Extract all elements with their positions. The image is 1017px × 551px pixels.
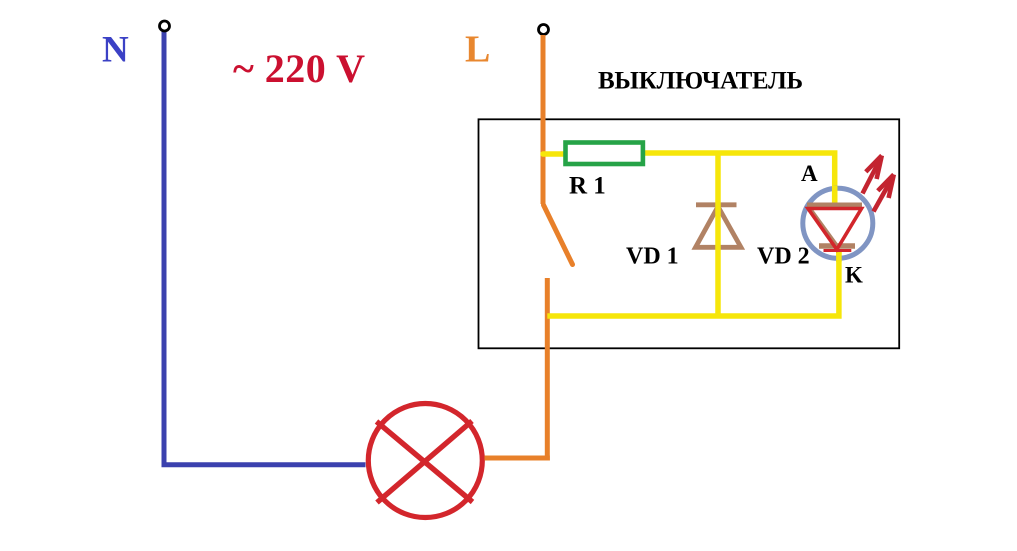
diode VD1 cathode bar bbox=[696, 202, 737, 207]
LED VD2 tan anode bar bbox=[807, 203, 862, 208]
terminal N bbox=[160, 21, 170, 31]
wire yellow into LED anode (over circle) bbox=[832, 186, 838, 206]
svg-text:L: L bbox=[465, 29, 490, 71]
wire orange lamp to riser overhang bbox=[485, 456, 550, 461]
LED VD2 tan cathode bar bbox=[819, 243, 855, 248]
svg-text:VD 2: VD 2 bbox=[757, 244, 810, 270]
wire L orange: vertical from terminal to switch pole bbox=[541, 35, 546, 204]
wire yellow: R1 output across top and down to LED anode bbox=[643, 153, 835, 206]
wire orange: switch output down and to lamp bbox=[485, 278, 548, 458]
resistor R1 bbox=[566, 143, 643, 165]
light emission arrow 2 bbox=[874, 175, 894, 212]
LED VD2 tan left edge bbox=[811, 210, 838, 247]
wire yellow: VD1 branch vertical bbox=[715, 153, 721, 316]
LED VD2 red triangle bbox=[808, 209, 862, 250]
switch enclosure box bbox=[479, 119, 900, 348]
svg-text:R 1: R 1 bbox=[569, 173, 606, 200]
svg-text:A: A bbox=[801, 161, 818, 186]
diode VD1 triangle bbox=[696, 207, 742, 248]
svg-text:~ 220 V: ~ 220 V bbox=[233, 46, 365, 91]
LED VD2 body circle bbox=[803, 188, 873, 258]
svg-text:ВЫКЛЮЧАТЕЛЬ: ВЫКЛЮЧАТЕЛЬ bbox=[598, 68, 803, 95]
svg-text:K: K bbox=[845, 263, 863, 288]
svg-text:VD 1: VD 1 bbox=[626, 244, 679, 270]
lamp X stroke 1 bbox=[377, 422, 473, 503]
LED VD2 red cathode line bbox=[824, 249, 852, 252]
svg-text:N: N bbox=[102, 30, 129, 71]
wire N blue: vertical drop and horizontal run to lamp bbox=[164, 31, 366, 465]
lamp HL circle bbox=[368, 404, 482, 518]
lamp X stroke 2 bbox=[377, 421, 472, 503]
wire yellow from LED cathode (over circle) bbox=[836, 250, 842, 262]
switch blade (open contact) bbox=[544, 205, 573, 265]
light emission arrow 1 bbox=[863, 156, 882, 194]
terminal L bbox=[539, 25, 549, 35]
wire yellow: bottom return bus bbox=[547, 252, 839, 316]
wire yellow stub from pole to R1 bbox=[543, 151, 567, 157]
